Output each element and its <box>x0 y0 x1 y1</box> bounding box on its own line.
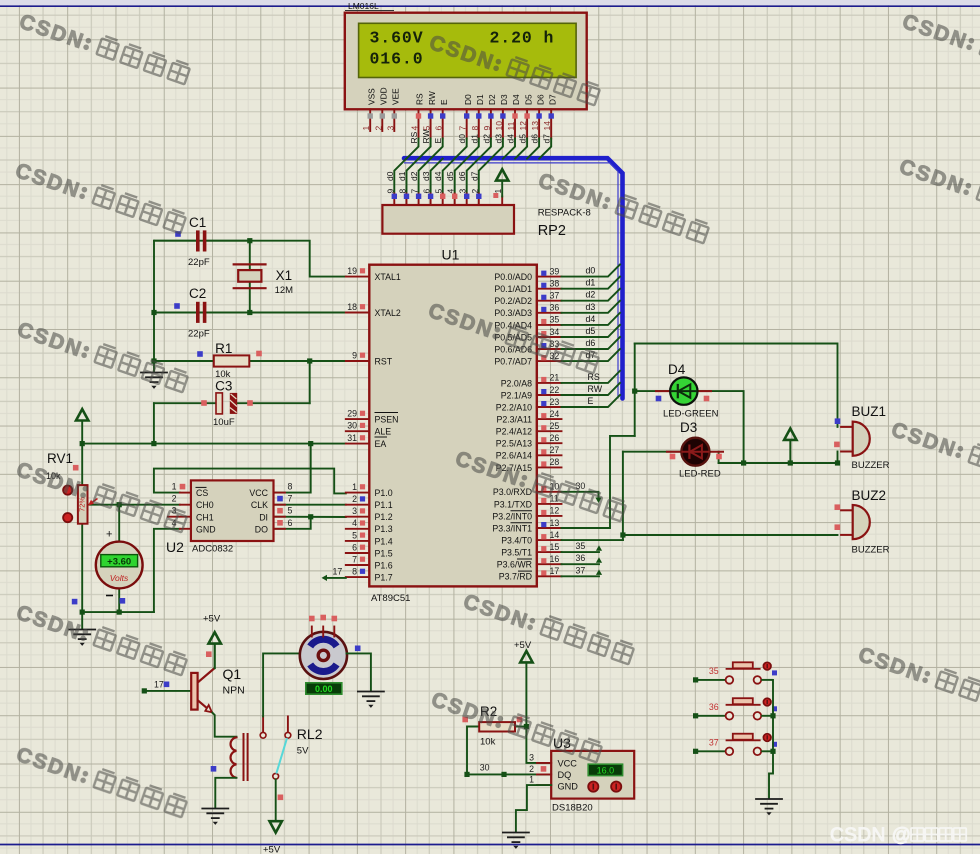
U1 pin 18 XTAL2 stub <box>346 312 370 314</box>
wire U2 CLK to U1 P1.1 <box>274 504 346 506</box>
svg-text:8: 8 <box>352 567 357 577</box>
svg-text:P2.3/A11: P2.3/A11 <box>496 415 532 425</box>
U1 pin 1 P1.0 stub <box>346 492 370 494</box>
svg-text:P3.7/RD: P3.7/RD <box>499 572 532 582</box>
U3 pin3 VCC stub <box>537 762 551 764</box>
wire D3 left horizontal <box>623 451 681 453</box>
wire R2 right <box>515 726 526 728</box>
svg-text:AT89C51: AT89C51 <box>371 593 410 604</box>
U1 pin 36 P0.3/AD3 stub <box>537 312 562 314</box>
ground G2 RV1 <box>69 630 95 646</box>
wire bus to RP2 d0 <box>394 159 406 194</box>
svg-text:6: 6 <box>422 189 432 194</box>
wire net 17 to Q1 base <box>144 690 191 692</box>
svg-text:5: 5 <box>288 506 293 516</box>
svg-text:21: 21 <box>550 373 560 383</box>
svg-text:D5: D5 <box>523 94 533 105</box>
svg-text:d4: d4 <box>433 171 443 181</box>
U2 pin1 CS stub <box>180 492 191 494</box>
svg-text:22pF: 22pF <box>188 257 210 268</box>
svg-text:D1: D1 <box>475 94 485 105</box>
U1 pin 30 ALE stub <box>346 430 370 432</box>
wire bus to RP2 d2 <box>419 159 431 194</box>
svg-text:24: 24 <box>550 409 560 419</box>
motor pin stub <box>333 627 335 637</box>
svg-text:XTAL2: XTAL2 <box>375 308 401 318</box>
RP2 pin 1 stub <box>501 197 503 206</box>
wire P3.0 RXD net 30 <box>562 492 599 498</box>
svg-text:VSS: VSS <box>366 88 376 105</box>
svg-text:19: 19 <box>347 266 357 276</box>
U1 pin 10 P3.0/RXD stub <box>537 491 562 493</box>
svg-text:P1.0: P1.0 <box>375 488 393 498</box>
svg-text:NPN: NPN <box>223 685 245 697</box>
svg-text:d1: d1 <box>469 134 479 144</box>
svg-text:P0.0/AD0: P0.0/AD0 <box>494 272 532 282</box>
U1 pin 5 P1.4 stub <box>346 540 370 542</box>
junction RST / C3 <box>307 358 312 363</box>
wire C3 left drop to rail <box>153 403 155 443</box>
wire P0.7 d7 to bus <box>562 349 621 361</box>
RL2 contact stub left <box>262 716 264 732</box>
svg-text:RW: RW <box>421 129 431 143</box>
wire BUZ1 bottom drop <box>837 452 839 464</box>
svg-text:ADC0832: ADC0832 <box>192 544 233 555</box>
svg-text:12M: 12M <box>275 285 294 296</box>
svg-text:72%: 72% <box>78 497 87 512</box>
wire RV1 top terminal <box>81 444 83 486</box>
junction wiper voltmeter <box>117 502 122 507</box>
svg-text:3: 3 <box>458 189 468 194</box>
svg-text:E: E <box>439 99 449 105</box>
U1 pin 19 XTAL1 stub <box>346 276 370 278</box>
svg-text:D3: D3 <box>499 94 509 105</box>
wire RP2 pin1 to +5V <box>501 181 503 197</box>
svg-text:D7: D7 <box>547 94 557 105</box>
page bottom edge line <box>0 844 980 846</box>
LCD pin 6 stub <box>442 109 444 138</box>
svg-text:39: 39 <box>550 266 560 276</box>
svg-text:+3.60: +3.60 <box>107 557 131 568</box>
wire net 30 to U3 DQ <box>467 773 551 775</box>
wire button 36 left <box>696 715 726 717</box>
wire +5V rail to EA pin <box>82 421 346 444</box>
svg-text:11: 11 <box>506 121 516 130</box>
LED D3 LED-RED <box>666 438 724 466</box>
LCD pin 13 stub <box>538 109 540 138</box>
svg-text:LED-RED: LED-RED <box>679 469 721 480</box>
svg-text:LED-GREEN: LED-GREEN <box>663 409 719 420</box>
U1 pin 21 P2.0/A8 stub <box>537 382 562 384</box>
svg-text:BUZZER: BUZZER <box>852 545 890 556</box>
U1 pin 28 P2.7/A15 stub <box>537 466 562 468</box>
svg-text:2: 2 <box>373 126 383 131</box>
svg-text:RW: RW <box>588 384 603 394</box>
svg-text:+5V: +5V <box>203 614 221 625</box>
wire D3 left drop <box>622 452 624 540</box>
svg-text:P3.2/INT0: P3.2/INT0 <box>492 511 532 521</box>
potentiometer RV1 10k <box>78 485 98 524</box>
junction X1 bottom <box>247 310 252 315</box>
wire P0.5 d5 to bus <box>562 325 621 337</box>
svg-text:Volts: Volts <box>110 573 129 583</box>
ground G6 U3 <box>503 833 529 849</box>
U1 pin 24 P2.3/A11 stub <box>537 418 562 420</box>
svg-text:d4: d4 <box>506 134 516 144</box>
svg-text:37: 37 <box>576 565 586 575</box>
svg-text:P1.7: P1.7 <box>375 573 393 583</box>
wire bus to RP2 d1 <box>407 159 419 194</box>
wire RV1 bottom to ground <box>81 524 83 629</box>
U2 pin6 DO stub <box>274 528 286 530</box>
svg-text:14: 14 <box>542 121 552 131</box>
RP2 pin 8 stub <box>406 194 408 206</box>
wire C3 right segment <box>237 402 310 404</box>
wire P3.4 T0 to buzzer net <box>562 539 623 541</box>
svg-text:d1: d1 <box>586 278 596 288</box>
IC U2 ADC0832 body <box>191 480 274 541</box>
svg-text:8: 8 <box>398 189 408 194</box>
svg-text:37: 37 <box>550 291 560 301</box>
wire button 35 left <box>696 679 726 681</box>
capacitor C2 <box>198 302 205 323</box>
crystal X1 12M <box>233 264 267 288</box>
svg-text:1: 1 <box>529 775 534 785</box>
motor rpm display <box>306 683 342 694</box>
svg-text:6: 6 <box>434 126 444 131</box>
svg-text:RP2: RP2 <box>538 223 566 239</box>
wire net A vertical <box>634 344 636 436</box>
svg-text:P2.1/A9: P2.1/A9 <box>501 390 532 400</box>
wire +5V to U3 VCC <box>526 663 551 763</box>
svg-text:RV1: RV1 <box>47 451 73 466</box>
wire X1 vertical taps <box>249 241 251 313</box>
svg-text:VDD: VDD <box>379 87 389 105</box>
wire to voltmeter + <box>118 505 120 542</box>
svg-text:30: 30 <box>480 763 490 773</box>
svg-text:C1: C1 <box>189 215 206 230</box>
junction X1 top <box>247 238 252 243</box>
svg-text:5: 5 <box>352 530 357 540</box>
U1 pin 27 P2.6/A14 stub <box>537 454 562 456</box>
RP2 pin 7 stub <box>418 194 420 206</box>
LCD pin 10 stub <box>502 109 504 138</box>
resistor R1 10k <box>214 355 250 366</box>
capacitor C1 <box>154 230 250 251</box>
U1 pin 38 P0.1/AD1 stub <box>537 288 562 290</box>
svg-text:DI: DI <box>259 512 268 522</box>
svg-text:2.20 h: 2.20 h <box>490 29 555 48</box>
RP2 pin 5 stub <box>442 194 444 206</box>
junction left rail C2 <box>151 310 156 315</box>
svg-text:4: 4 <box>352 518 357 528</box>
U2 pin3 CH1 stub <box>168 516 191 518</box>
LCD pin 7 stub <box>466 109 468 138</box>
svg-text:BUZ2: BUZ2 <box>852 488 887 503</box>
wire Q1 collector to +5V <box>214 644 216 668</box>
U1 pin 39 P0.0/AD0 stub <box>537 276 562 278</box>
svg-text:6: 6 <box>288 518 293 528</box>
junction +5V rail / C3 <box>151 441 156 446</box>
svg-text:17: 17 <box>154 680 164 690</box>
svg-text:RST: RST <box>375 356 393 366</box>
U3 pin1 GND stub <box>537 784 551 786</box>
wire LCD d7 into bus <box>539 139 551 159</box>
U1 pin 15 P3.5/T1 stub <box>537 551 562 553</box>
wire P3.6 net 36 <box>562 563 600 565</box>
svg-text:D0: D0 <box>463 94 473 105</box>
U1 pin 35 P0.4/AD4 stub <box>537 324 562 326</box>
svg-text:ALE: ALE <box>375 427 392 437</box>
wire P0.0 d0 to bus <box>562 265 621 277</box>
svg-text:+: + <box>106 529 112 541</box>
wire U2 DO tie <box>274 517 311 529</box>
LCD pin 12 stub <box>526 109 528 138</box>
ground G5 buttons <box>756 799 782 815</box>
U1 pin 32 P0.7/AD7 stub <box>537 360 562 362</box>
junction net C <box>620 532 625 537</box>
svg-text:d6: d6 <box>457 171 467 181</box>
svg-text:12: 12 <box>518 121 528 131</box>
ground G3 relay coil <box>202 809 228 825</box>
bus thin echo line <box>404 163 618 399</box>
IC U3 DS18B20 body <box>551 751 634 799</box>
svg-text:2: 2 <box>172 494 177 504</box>
svg-text:4: 4 <box>446 189 456 194</box>
junction button 36 <box>770 713 775 718</box>
svg-text:PSEN: PSEN <box>375 415 399 425</box>
svg-text:D4: D4 <box>668 362 686 377</box>
ground G1 crystal rail <box>153 361 155 373</box>
RL2 contact stub right <box>287 716 289 732</box>
ground G4 motor <box>358 692 384 708</box>
svg-text:VEE: VEE <box>391 88 401 105</box>
U2 pin4 GND stub <box>180 528 191 530</box>
wire LCD E into bus <box>431 139 443 159</box>
white CSDN watermark bottom right <box>830 825 966 846</box>
wire C3 left segment <box>154 402 216 404</box>
U1 pin 16 P3.6/WR stub <box>537 563 562 565</box>
RP2 pin 4 stub <box>454 194 456 206</box>
buzzer BUZ2 <box>840 505 870 539</box>
svg-text:7: 7 <box>458 126 468 131</box>
U1 pin 2 P1.1 stub <box>346 504 370 506</box>
svg-text:BUZZER: BUZZER <box>852 460 890 471</box>
wire bus to RP2 d6 <box>467 159 479 194</box>
svg-text:P2.4/A12: P2.4/A12 <box>496 427 532 437</box>
svg-text:d1: d1 <box>397 171 407 181</box>
svg-text:d5: d5 <box>445 171 455 181</box>
U1 pin 37 P0.2/AD2 stub <box>537 300 562 302</box>
U1 pin 25 P2.4/A12 stub <box>537 430 562 432</box>
svg-text:22pF: 22pF <box>188 329 210 340</box>
voltmeter <box>96 542 143 589</box>
LCD pin 4 stub <box>418 109 420 138</box>
svg-text:P2.6/A14: P2.6/A14 <box>496 451 532 461</box>
svg-text:CH1: CH1 <box>196 512 214 522</box>
svg-text:3: 3 <box>529 752 534 762</box>
svg-text:d5: d5 <box>586 326 596 336</box>
wire bus to RP2 d7 <box>479 159 491 194</box>
svg-text:P2.0/A8: P2.0/A8 <box>501 378 532 388</box>
svg-text:1: 1 <box>172 482 177 492</box>
svg-text:28: 28 <box>550 457 560 467</box>
svg-text:7: 7 <box>288 494 293 504</box>
svg-text:2: 2 <box>529 764 534 774</box>
svg-text:P1.5: P1.5 <box>375 548 393 558</box>
LCD screen <box>359 23 576 77</box>
svg-text:10k: 10k <box>480 737 496 748</box>
junction D4/net B <box>741 460 746 465</box>
svg-text:d3: d3 <box>586 302 596 312</box>
wire to D4 left <box>635 390 671 392</box>
svg-text:d6: d6 <box>530 134 540 144</box>
U1 pin 6 P1.5 stub <box>346 552 370 554</box>
wire LCD d2 into bus <box>479 139 491 159</box>
svg-text:35: 35 <box>550 315 560 325</box>
wire +5V stem net B <box>789 441 791 464</box>
wire net A top to BUZ1 <box>635 344 838 427</box>
wire Q1 emitter to relay coil <box>212 713 236 737</box>
svg-text:P1.1: P1.1 <box>375 500 393 510</box>
U1 pin 29 PSEN stub <box>346 418 370 420</box>
svg-text:13: 13 <box>530 121 540 131</box>
motor <box>300 632 347 679</box>
junction button 37 <box>770 749 775 754</box>
svg-text:4: 4 <box>410 126 420 131</box>
wire rail to U2 VCC <box>274 444 311 493</box>
svg-text:P3.4/T0: P3.4/T0 <box>501 536 532 546</box>
svg-text:1: 1 <box>361 126 371 131</box>
wire LCD d6 into bus <box>527 139 539 159</box>
svg-text:d0: d0 <box>385 171 395 181</box>
U1 pin 9 RST stub <box>346 360 370 362</box>
page top margin strip <box>0 0 980 5</box>
wire analog ground row <box>82 611 154 613</box>
svg-text:D6: D6 <box>535 94 545 105</box>
svg-text:10uF: 10uF <box>213 417 235 428</box>
wire motor right to ground <box>347 653 371 690</box>
svg-text:R1: R1 <box>215 341 232 356</box>
U1 pin 22 P2.1/A9 stub <box>537 394 562 396</box>
svg-text:6: 6 <box>352 542 357 552</box>
svg-text:U1: U1 <box>442 247 460 263</box>
wire R2 left drop <box>467 727 479 775</box>
svg-text:3: 3 <box>385 126 395 131</box>
svg-text:EA: EA <box>375 439 387 449</box>
U1 pin 17 P3.7/RD stub <box>537 575 562 577</box>
wire P0.2 d2 to bus <box>562 289 621 301</box>
wire P3.3 INT1 to LED net <box>562 436 635 528</box>
LCD pin 5 stub <box>430 109 432 138</box>
svg-text:22: 22 <box>550 385 560 395</box>
svg-text:P3.3/INT1: P3.3/INT1 <box>492 523 532 533</box>
svg-text:13: 13 <box>550 518 560 528</box>
U3 temperature display <box>588 764 622 775</box>
LCD pin 9 stub <box>490 109 492 138</box>
wire LCD d1 into bus <box>467 139 479 159</box>
svg-text:C3: C3 <box>215 379 232 394</box>
U1 pin 33 P0.6/AD6 stub <box>537 348 562 350</box>
svg-text:XTAL1: XTAL1 <box>375 272 401 282</box>
wire P0.3 d3 to bus <box>562 301 621 313</box>
svg-text:d2: d2 <box>481 134 491 144</box>
U1 pin 31 EA stub <box>346 443 370 445</box>
svg-text:RL2: RL2 <box>297 726 323 742</box>
RP2 pin 3 stub <box>466 194 468 206</box>
svg-text:P0.1/AD1: P0.1/AD1 <box>494 284 532 294</box>
wire U2 DI to U1 P1.2 <box>274 516 346 518</box>
svg-text:d6: d6 <box>586 338 596 348</box>
wire bus to RP2 d4 <box>443 159 455 194</box>
U1 pin 12 P3.2/INT0 stub <box>537 515 562 517</box>
U1 pin 14 P3.4/T0 stub <box>537 539 562 541</box>
svg-text:d7: d7 <box>542 134 552 144</box>
wire bus to RP2 d3 <box>431 159 443 194</box>
wire button 37 left <box>696 750 726 752</box>
LCD pin 2 stub <box>381 109 383 131</box>
svg-text:38: 38 <box>550 279 560 289</box>
svg-text:P1.6: P1.6 <box>375 560 393 570</box>
svg-text:GND: GND <box>196 524 216 534</box>
wire LCD d0 into bus <box>455 139 467 159</box>
svg-text:D3: D3 <box>680 420 697 435</box>
U1 pin 34 P0.5/AD5 stub <box>537 336 562 338</box>
svg-text:RS: RS <box>415 93 425 105</box>
wire RST to C3 right <box>309 361 311 403</box>
svg-text:9: 9 <box>385 189 395 194</box>
IC U1 AT89C51 body <box>369 265 537 587</box>
svg-text:P3.5/T1: P3.5/T1 <box>501 548 532 558</box>
svg-text:DQ: DQ <box>558 770 572 780</box>
svg-text:25: 25 <box>550 421 560 431</box>
wire P2.2 E to bus <box>562 395 621 407</box>
svg-text:P3.1/TXD: P3.1/TXD <box>494 499 532 509</box>
wire U3 GND to ground <box>516 785 551 831</box>
svg-text:GND: GND <box>558 782 579 792</box>
svg-text:3.60V: 3.60V <box>370 29 424 48</box>
svg-text:18: 18 <box>347 302 357 312</box>
svg-text:P1.2: P1.2 <box>375 512 393 522</box>
svg-text:35: 35 <box>576 541 586 551</box>
svg-text:P1.4: P1.4 <box>375 536 393 546</box>
wire bus to RP2 d5 <box>455 159 467 194</box>
wire LCD d4 into bus <box>503 139 515 159</box>
RP2 pin 9 stub <box>393 194 395 206</box>
LCD pin 3 stub <box>393 109 395 131</box>
svg-text:7: 7 <box>410 189 420 194</box>
LCD pin 11 stub <box>514 109 516 138</box>
transistor Q1 NPN <box>191 668 215 713</box>
svg-text:d0: d0 <box>586 266 596 276</box>
svg-text:E: E <box>433 138 443 144</box>
U1 pin 4 P1.3 stub <box>346 528 370 530</box>
svg-text:12: 12 <box>550 506 560 516</box>
svg-text:VCC: VCC <box>249 488 268 498</box>
wire voltmeter - down <box>118 588 120 612</box>
junction voltmeter gnd <box>117 610 122 615</box>
junction DQ row <box>501 772 506 777</box>
U3 adjust buttons <box>588 782 598 792</box>
RP2 pin 2 stub <box>478 194 480 206</box>
wire P0.6 d6 to bus <box>562 337 621 349</box>
svg-text:2: 2 <box>352 494 357 504</box>
junction +5V rail / RV1 <box>80 441 85 446</box>
relay RL2 coil <box>231 737 237 778</box>
svg-text:CH0: CH0 <box>196 500 214 510</box>
wire LCD RW into bus <box>419 139 431 159</box>
RV1 adjust buttons <box>63 486 72 495</box>
